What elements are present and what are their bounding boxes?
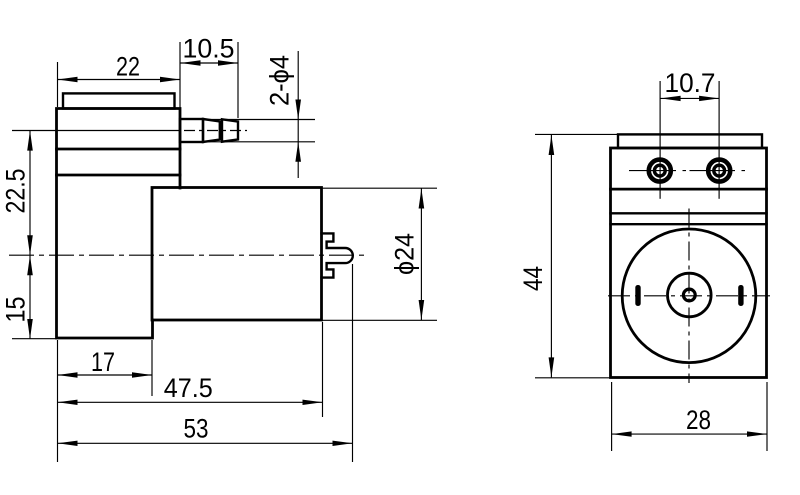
dim 22.5 arrows (27, 131, 33, 151)
dim 44 extension lines (535, 133, 619, 135)
dim 53 arrows (58, 441, 78, 446)
dim 47.5 arrows (58, 400, 78, 405)
left port vertical center line (659, 81, 661, 199)
dim 53 extension lines (57, 340, 59, 462)
dim 44 arrows (549, 135, 555, 155)
face horizontal center line (608, 295, 770, 297)
hose barb cone 1 (203, 119, 220, 142)
right mounting slot (738, 285, 743, 306)
dim 2-phi4 arrows (295, 100, 301, 120)
front body (611, 148, 767, 378)
svg-text:ϕ24: ϕ24 (390, 233, 420, 275)
motor body (152, 188, 322, 321)
dim phi24 line (420, 188, 422, 320)
dim 22.5 line (29, 131, 31, 339)
face vertical center line (688, 209, 690, 384)
motor boss circle (668, 273, 712, 317)
dim 22.5/15 extension lines (12, 338, 57, 340)
dim 22 line (58, 79, 181, 81)
svg-text:22: 22 (116, 52, 140, 82)
right port vertical center line (718, 81, 720, 199)
motor center line (9, 254, 366, 256)
hose barb segment 1 (180, 119, 203, 142)
dim 22 extension lines (57, 62, 59, 107)
motor shaft terminal (322, 233, 353, 277)
left port inner ring (654, 165, 665, 176)
dim 17 extension line (151, 340, 153, 396)
dim 2-phi4 leader line (297, 51, 299, 178)
dim 10.7 arrows (661, 96, 681, 101)
dim 10.5 extension line (237, 42, 239, 118)
front parting line 2 (611, 212, 767, 214)
svg-text:10.5: 10.5 (183, 34, 235, 64)
motor face circle (622, 229, 756, 363)
dim 44 line (550, 135, 552, 378)
hose barb cone 2 (222, 119, 238, 141)
left mounting slot (635, 285, 640, 306)
front parting line 1 (611, 188, 767, 191)
front cap (618, 134, 762, 148)
head parting line 1 (57, 148, 181, 151)
front parting line 3 (611, 223, 767, 225)
dim 10.5 line (180, 62, 238, 64)
svg-text:22.5: 22.5 (1, 169, 31, 214)
dim 15 arrows (27, 255, 33, 275)
motor hub circle (683, 289, 695, 301)
dim 10.5 arrows (181, 60, 201, 65)
dim phi24 arrows (419, 189, 425, 209)
head parting line 2 (57, 174, 181, 177)
dim 53 line (58, 442, 353, 444)
right port inner ring (714, 165, 725, 176)
dim 22 arrows (58, 77, 78, 82)
dim phi24 extension lines (322, 187, 437, 189)
dim 2-phi4 extension lines (203, 119, 315, 121)
svg-text:2-ϕ4: 2-ϕ4 (265, 55, 295, 106)
svg-text:17: 17 (91, 347, 115, 377)
dim 17 line (58, 374, 153, 376)
dim 47.5 extension line (322, 322, 324, 417)
svg-text:28: 28 (686, 405, 711, 435)
dim 10.7 line (660, 97, 719, 99)
left port outer ring (649, 160, 671, 182)
dim 28 extension lines (611, 382, 613, 451)
svg-text:44: 44 (518, 266, 548, 291)
dim 17 arrows (58, 372, 78, 377)
dim 28 arrows (612, 431, 632, 436)
dim 47.5 line (58, 401, 323, 403)
ports horizontal center line (629, 170, 745, 172)
svg-text:53: 53 (184, 414, 209, 444)
dim 28 line (612, 433, 767, 435)
barb center line (12, 130, 181, 132)
pump head cap (63, 93, 175, 108)
svg-text:10.7: 10.7 (665, 68, 716, 98)
svg-text:15: 15 (1, 297, 31, 323)
svg-text:47.5: 47.5 (164, 373, 213, 403)
right port outer ring (708, 160, 730, 182)
pump head body (57, 109, 181, 339)
